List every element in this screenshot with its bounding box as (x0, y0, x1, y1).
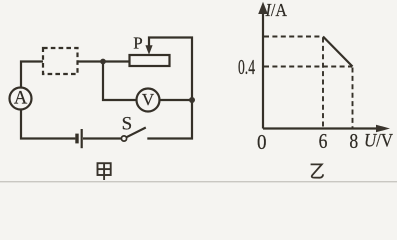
svg-text:0.4: 0.4 (238, 55, 255, 79)
svg-text:I/A: I/A (265, 0, 287, 20)
svg-text:U/V: U/V (364, 130, 393, 151)
svg-text:0: 0 (257, 130, 267, 154)
svg-text:6: 6 (319, 129, 328, 153)
svg-text:8: 8 (349, 129, 358, 153)
svg-text:P: P (133, 34, 142, 53)
svg-text:V: V (142, 90, 155, 109)
svg-text:A: A (14, 89, 28, 109)
svg-text:S: S (122, 113, 133, 134)
